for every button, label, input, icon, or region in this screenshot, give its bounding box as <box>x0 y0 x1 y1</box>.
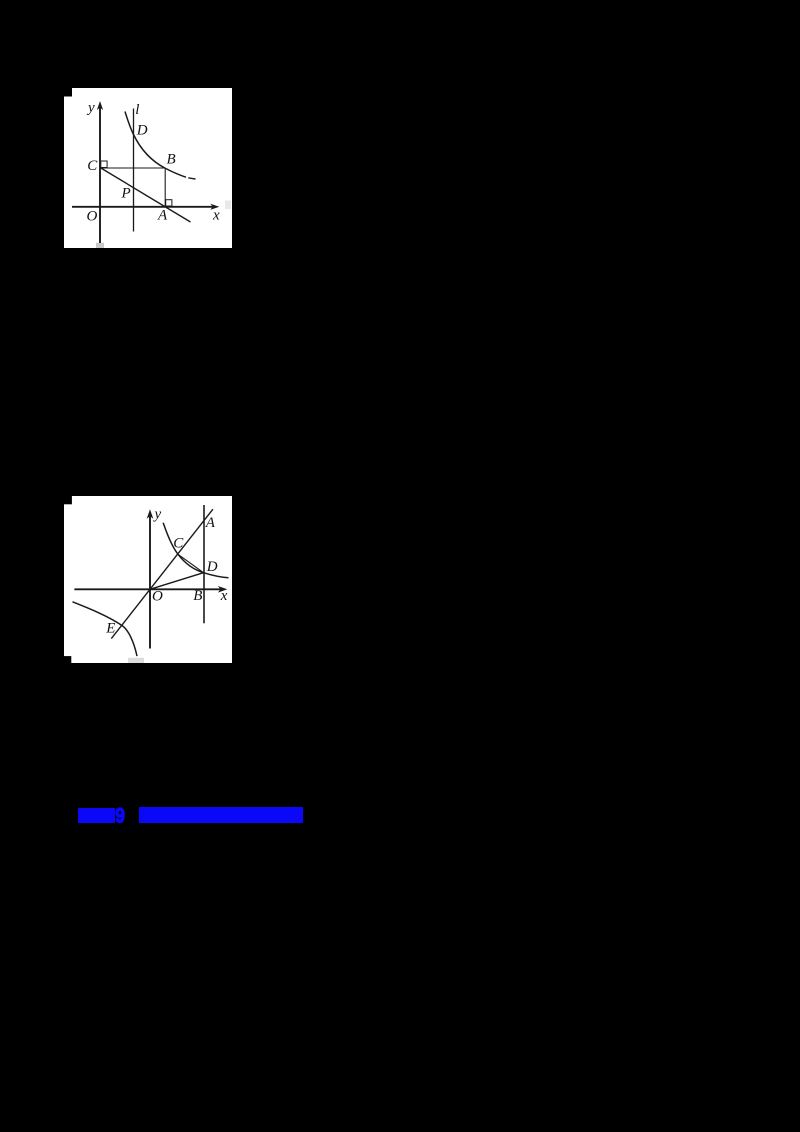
blue heading: second segment bar <box>139 807 303 823</box>
svg-text:C: C <box>87 158 98 174</box>
hyperbola third-quadrant branch <box>73 601 138 655</box>
svg-text:D: D <box>206 559 218 575</box>
svg-text:B: B <box>193 588 202 604</box>
svg-text:A: A <box>205 515 216 531</box>
segment O-D <box>150 572 204 589</box>
segment C-B horizontal <box>100 167 165 169</box>
svg-text:A: A <box>157 207 168 223</box>
svg-text:9: 9 <box>115 805 125 826</box>
svg-text:x: x <box>220 588 228 604</box>
segment B-A vertical <box>164 168 166 207</box>
x-axis <box>72 205 213 207</box>
x-axis arrowhead <box>210 203 219 209</box>
gray smudge bottom <box>128 657 144 663</box>
y-axis arrowhead <box>147 509 154 518</box>
svg-text:l: l <box>135 102 139 118</box>
blue heading: digit 9 <box>113 802 129 826</box>
right-angle mark at A <box>166 199 172 205</box>
bottom-left black notch of panel 2 <box>64 656 71 663</box>
x-axis <box>74 588 221 590</box>
segment C-A diagonal extended <box>100 167 191 222</box>
svg-text:O: O <box>152 588 163 604</box>
svg-text:E: E <box>105 620 115 636</box>
right-angle mark at C <box>101 161 107 168</box>
figure 2: white graph panel <box>64 496 232 664</box>
vertical line through B <box>203 505 205 623</box>
gray square at bottom of y-axis <box>96 242 104 247</box>
svg-text:C: C <box>173 535 184 551</box>
svg-text:P: P <box>121 185 131 201</box>
svg-text:y: y <box>86 100 95 116</box>
svg-text:x: x <box>212 207 220 223</box>
y-axis <box>99 107 101 243</box>
top-left black notch of panel 1 <box>64 88 72 97</box>
chord C-D <box>178 554 204 572</box>
top-left black notch of panel 2 <box>64 496 72 504</box>
svg-text:y: y <box>153 506 162 522</box>
gray smudge right of x arrow <box>225 200 231 209</box>
svg-text:O: O <box>87 208 98 224</box>
svg-text:B: B <box>167 151 176 167</box>
hyperbola first-quadrant branch <box>163 522 228 577</box>
diagonal line E-O-A <box>111 509 213 638</box>
y-axis <box>149 515 151 649</box>
svg-text:D: D <box>136 122 148 138</box>
figure 1: white graph panel <box>64 88 232 249</box>
x-axis arrowhead <box>218 586 227 593</box>
y-axis arrowhead <box>97 101 103 110</box>
vertical line l <box>133 108 135 231</box>
hyperbola branch through D and B <box>125 111 186 177</box>
blue heading: first segment block <box>78 808 115 824</box>
